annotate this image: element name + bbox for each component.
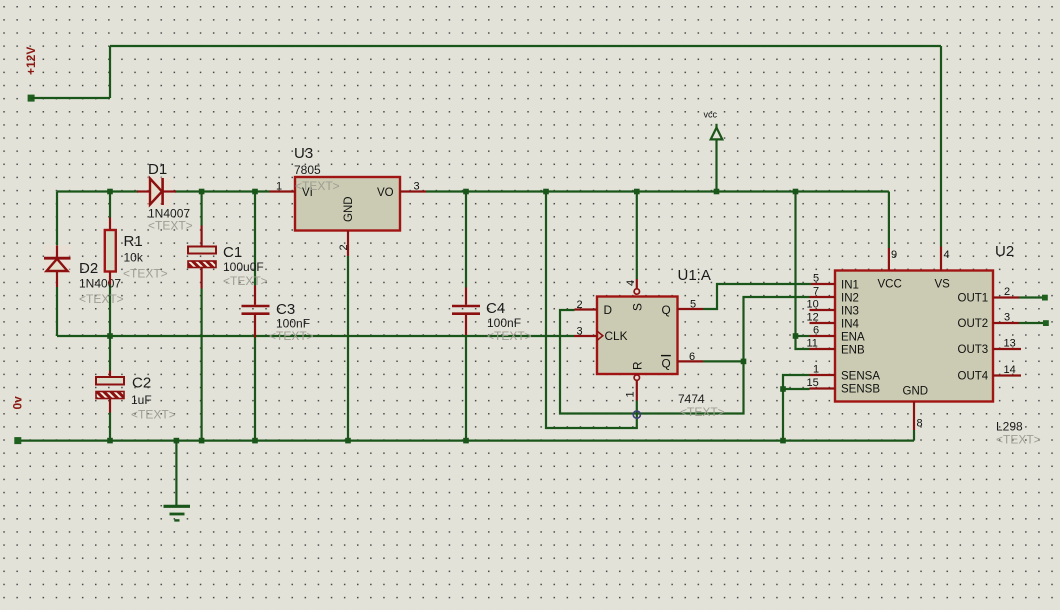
wire SENSA left	[783, 375, 810, 389]
label C1	[223, 244, 242, 261]
pin name OUT3	[958, 344, 989, 356]
pin 3 lead (U1 CLK)	[574, 335, 597, 337]
wire Qbar to junction	[703, 360, 744, 362]
label vcc	[704, 110, 718, 120]
svg-text:IN3: IN3	[841, 306, 859, 318]
svg-text:1: 1	[813, 364, 819, 376]
text placeholder (C1)	[223, 274, 268, 288]
pin 1 lead (U3 VI)	[270, 190, 296, 192]
junction rail-vcc arrow	[714, 189, 720, 195]
pin number 15 (U2)	[807, 377, 819, 389]
svg-text:100u0F: 100u0F	[223, 260, 264, 274]
svg-text:VS: VS	[935, 279, 951, 291]
capacitor C2 (polarized)	[96, 371, 124, 413]
svg-text:11: 11	[807, 338, 818, 350]
svg-text:3: 3	[414, 181, 420, 193]
wire ENA/ENB riser	[794, 192, 796, 337]
value 7474	[678, 392, 705, 406]
pin number 2 (U1)	[577, 299, 583, 311]
wire +12V drop to U2 VS	[940, 46, 942, 247]
wire U2 GND riser	[913, 430, 915, 441]
junction rail-pullup	[543, 189, 549, 195]
svg-text:4: 4	[944, 249, 950, 261]
pin name IN4	[841, 319, 860, 331]
svg-text:VO: VO	[377, 187, 394, 199]
pin 2 lead (U1 D)	[575, 308, 598, 310]
label R1	[124, 233, 143, 250]
clock input triangle	[597, 331, 603, 340]
pin 8 lead (U2 GND)	[913, 402, 915, 431]
value 1N4007 (D2)	[79, 277, 121, 291]
pin number 10 (U2)	[807, 299, 819, 311]
wire +12V top rail	[110, 45, 941, 47]
svg-text:1: 1	[276, 181, 282, 193]
label +12V	[24, 47, 38, 75]
svg-text:C3: C3	[276, 301, 295, 318]
pin name Q	[662, 303, 671, 317]
pin number 5 (U2)	[813, 273, 819, 285]
wire +12V riser	[109, 46, 111, 98]
pin number 3 (U3)	[414, 181, 420, 193]
pin 3 lead (OUT2)	[993, 322, 1019, 324]
wire C4 top	[465, 192, 467, 288]
pin name GND (U3)	[343, 196, 355, 222]
svg-text:<TEXT>: <TEXT>	[680, 405, 725, 419]
wire D2 branch down	[56, 192, 58, 246]
node OUT1 terminal	[1042, 295, 1048, 301]
junction rail-C1	[199, 189, 205, 195]
label C2	[132, 375, 151, 392]
svg-text:R: R	[631, 361, 645, 370]
label U2	[995, 243, 1014, 260]
pin number 8 (U2)	[917, 418, 923, 430]
pin name ENB	[841, 345, 865, 357]
value 100u0F	[223, 260, 264, 274]
pin name IN1	[841, 280, 859, 292]
junction gnd-C4	[463, 438, 469, 444]
svg-text:VCC: VCC	[878, 279, 902, 291]
label D1	[148, 161, 167, 178]
svg-text:IN2: IN2	[841, 293, 859, 305]
value 7805	[294, 163, 321, 177]
node crossing marker near U1 R pin	[633, 411, 640, 418]
label U3	[294, 145, 313, 162]
svg-text:5: 5	[690, 299, 696, 311]
pin 10 lead (IN3)	[810, 309, 836, 311]
pin 13 lead (OUT3)	[993, 348, 1021, 350]
junction CLK line-C2	[107, 333, 113, 339]
node 0v terminal	[14, 437, 21, 444]
svg-text:<TEXT>: <TEXT>	[148, 219, 193, 233]
pin 1 lead (SENSA)	[810, 374, 836, 376]
pin name VO	[377, 187, 394, 199]
pin 11 lead (ENB)	[810, 348, 836, 350]
wire C2 bottom to ground rail	[109, 413, 111, 441]
junction gnd-U3	[345, 438, 351, 444]
wire ENA to ENB	[796, 336, 810, 349]
svg-text:GND: GND	[343, 196, 355, 222]
svg-text:2: 2	[577, 299, 583, 311]
pin number 3 (U1)	[577, 326, 583, 338]
svg-text:6: 6	[813, 325, 819, 337]
wire rail D1 to U3 pin1	[175, 190, 270, 192]
pin 2 lead (U3 GND)	[347, 231, 349, 257]
wire U3 GND to ground rail	[347, 256, 349, 441]
svg-text:7805: 7805	[294, 163, 321, 177]
wire Q to IN1	[703, 284, 811, 309]
ground symbol	[164, 441, 191, 521]
junction rail-ENA riser	[793, 189, 799, 195]
label C4	[486, 300, 505, 317]
wire +12V terminal to riser	[31, 97, 110, 99]
pin number 6 (U1)	[689, 351, 695, 363]
wire ground rail	[18, 440, 914, 442]
svg-text:C2: C2	[132, 375, 151, 392]
svg-text:+12V: +12V	[24, 47, 38, 75]
pin 6 lead (ENA)	[810, 335, 836, 337]
text placeholder (U1)	[680, 405, 725, 419]
junction rail-C4	[463, 189, 469, 195]
svg-text:1: 1	[625, 391, 637, 397]
pin number 4 (U2)	[944, 249, 950, 261]
pin name ENA	[841, 332, 865, 344]
pin name R (rotated)	[631, 361, 645, 370]
junction SENSA-SENSB	[780, 386, 786, 392]
label 0v	[11, 396, 25, 410]
wire C4 bottom to ground rail	[465, 335, 467, 441]
pin 1 lead (U1 R) with inversion circle	[634, 375, 639, 401]
pin name D	[604, 303, 613, 317]
wire C3 top	[254, 192, 256, 286]
pin 4 lead (U1 S) with inversion circle	[634, 279, 639, 294]
value 1uF	[131, 393, 152, 407]
svg-text:OUT2: OUT2	[958, 318, 989, 330]
label C3	[276, 301, 295, 318]
text placeholder (D2)	[79, 292, 124, 306]
svg-text:Q: Q	[662, 303, 671, 317]
svg-text:OUT3: OUT3	[958, 344, 989, 356]
svg-text:7474: 7474	[678, 392, 705, 406]
junction gnd-SENS	[780, 438, 786, 444]
wire VO output rail	[426, 190, 889, 192]
pin 5 lead (IN1)	[811, 283, 835, 285]
svg-text:4: 4	[625, 280, 637, 286]
svg-text:OUT4: OUT4	[958, 371, 989, 383]
svg-text:vcc: vcc	[704, 110, 718, 120]
junction rail-R1	[107, 189, 113, 195]
svg-text:L298: L298	[996, 420, 1023, 434]
svg-text:Q: Q	[662, 357, 671, 371]
svg-text:IN4: IN4	[841, 319, 860, 331]
svg-text:3: 3	[577, 326, 583, 338]
text placeholder (R1)	[123, 267, 168, 281]
wire ENA stub	[796, 335, 810, 337]
pin name SENSA	[841, 371, 880, 383]
svg-text:2: 2	[1004, 286, 1010, 298]
label U1:A	[678, 267, 711, 284]
wire OUT2	[1019, 322, 1045, 324]
svg-text:ENB: ENB	[841, 345, 865, 357]
pin number 9 (U2)	[891, 249, 897, 261]
svg-text:CLK: CLK	[605, 329, 628, 343]
pin name GND (U2)	[903, 386, 929, 398]
pin number 1 (U1)	[625, 391, 637, 397]
wire OUT1	[1019, 296, 1044, 298]
junction ENA-ENB	[793, 333, 799, 339]
wire C3 bottom to ground rail	[254, 338, 256, 441]
svg-text:15: 15	[807, 377, 819, 389]
wire Qbar feedback to D	[560, 310, 744, 414]
svg-text:5: 5	[813, 273, 819, 285]
svg-text:13: 13	[1004, 338, 1016, 350]
svg-text:<TEXT>: <TEXT>	[487, 329, 532, 343]
pin 6 lead (U1 Qbar)	[678, 360, 704, 362]
value 1N4007 (D1)	[148, 207, 190, 221]
pin name Qbar with overline	[661, 356, 671, 371]
svg-text:SENSA: SENSA	[841, 371, 880, 383]
pin name OUT1	[958, 293, 989, 305]
pin number 2 (U3)	[338, 244, 350, 250]
svg-text:2: 2	[338, 244, 350, 250]
value L298	[996, 420, 1023, 434]
svg-text:GND: GND	[903, 386, 929, 398]
svg-text:U1:A: U1:A	[678, 267, 711, 284]
svg-text:0v: 0v	[11, 396, 25, 410]
text placeholder (C3)	[269, 329, 314, 343]
driver U2 L298	[835, 271, 993, 402]
wire R pull branch from rail	[546, 192, 637, 429]
pin number 13 (U2)	[1004, 338, 1016, 350]
svg-text:<TEXT>: <TEXT>	[131, 408, 176, 422]
wire U1 S pin riser	[636, 192, 638, 280]
junction gnd-C2	[107, 438, 113, 444]
pin 14 lead (OUT4)	[993, 374, 1021, 376]
wire C2 top stub	[109, 336, 111, 371]
junction gnd-C1	[199, 438, 205, 444]
wire C1 top	[201, 192, 203, 226]
svg-text:IN1: IN1	[841, 280, 859, 292]
pin number 4 (U1)	[625, 280, 637, 286]
svg-text:<TEXT>: <TEXT>	[79, 292, 124, 306]
wire CLK line	[57, 335, 574, 337]
power symbol VCC arrow	[711, 124, 723, 140]
pin name IN2	[841, 293, 859, 305]
pin name IN3	[841, 306, 859, 318]
node +12V terminal	[28, 95, 35, 102]
svg-text:ENA: ENA	[841, 332, 865, 344]
svg-text:U2: U2	[995, 243, 1014, 260]
pin name OUT4	[958, 371, 989, 383]
pin number 14 (U2)	[1004, 364, 1016, 376]
capacitor C1 (polarized)	[188, 226, 216, 289]
flip-flop U1:A 7474	[597, 297, 678, 375]
svg-text:8: 8	[917, 418, 923, 430]
wire R1 top stub	[109, 192, 111, 218]
svg-text:<TEXT>: <TEXT>	[295, 179, 340, 193]
pin number 1 (U3)	[276, 181, 282, 193]
svg-text:12: 12	[807, 312, 819, 324]
pin 7 lead (IN2)	[810, 296, 836, 298]
svg-text:C4: C4	[486, 300, 505, 317]
pin number 6 (U2)	[813, 325, 819, 337]
svg-text:D: D	[604, 303, 613, 317]
pin number 3 (U2)	[1004, 312, 1010, 324]
pin 15 lead (SENSB)	[810, 387, 836, 389]
svg-text:10k: 10k	[124, 251, 144, 265]
svg-text:9: 9	[891, 249, 897, 261]
svg-text:3: 3	[1004, 312, 1010, 324]
svg-text:10: 10	[807, 299, 819, 311]
junction Qbar node	[741, 359, 747, 365]
svg-text:100nF: 100nF	[487, 316, 521, 330]
wire U2 VCC drop	[888, 192, 890, 249]
capacitor C3	[242, 286, 270, 338]
pin number 7 (U2)	[813, 286, 819, 298]
pin name OUT2	[958, 318, 989, 330]
pin 9 lead (U2 VCC)	[888, 248, 890, 271]
text placeholder (U2)	[996, 433, 1041, 447]
capacitor C4	[452, 288, 480, 336]
pin name SENSB	[841, 384, 880, 396]
svg-text:<TEXT>: <TEXT>	[996, 433, 1041, 447]
svg-text:1N4007: 1N4007	[79, 277, 121, 291]
value 100nF (C4)	[487, 316, 521, 330]
pin name S (rotated)	[631, 303, 645, 311]
value 10k	[124, 251, 144, 265]
pin name VS (U2)	[935, 279, 951, 291]
text placeholder (U3)	[295, 179, 340, 193]
regulator U3 7805	[295, 177, 400, 231]
text placeholder (C2)	[131, 408, 176, 422]
pin 5 lead (U1 Q)	[678, 308, 704, 310]
junction rail-C3	[252, 189, 258, 195]
svg-text:D2: D2	[79, 260, 98, 277]
text placeholder (C4)	[487, 329, 532, 343]
svg-text:7: 7	[813, 286, 819, 298]
pin 2 lead (OUT1)	[993, 296, 1019, 298]
svg-text:OUT1: OUT1	[958, 293, 989, 305]
pin 4 lead (U2 VS)	[940, 247, 942, 271]
pin number 11 (U2)	[807, 338, 818, 350]
value 100nF (C3)	[276, 317, 310, 331]
pin 12 lead (IN4)	[810, 322, 836, 324]
diode D1	[137, 177, 176, 207]
junction gnd-C3	[252, 438, 258, 444]
resistor R1	[105, 218, 116, 285]
wire R1 bottom to CLK line	[109, 285, 111, 337]
junction rail-S	[634, 189, 640, 195]
wire SENSB left	[783, 388, 810, 390]
svg-text:1uF: 1uF	[131, 393, 152, 407]
pin 3 lead (U3 VO)	[400, 190, 426, 192]
svg-text:C1: C1	[223, 244, 242, 261]
wire SENS to ground rail	[782, 389, 784, 441]
wire Qbar junction to IN2	[744, 297, 810, 361]
svg-text:<TEXT>: <TEXT>	[269, 329, 314, 343]
pin number 2 (U2)	[1004, 286, 1010, 298]
pin number 5 (U1)	[690, 299, 696, 311]
label D2	[79, 260, 98, 277]
svg-text:R1: R1	[124, 233, 143, 250]
pin name CLK	[605, 329, 628, 343]
pin name VI	[302, 187, 313, 199]
wire main input rail (left of D1)	[57, 190, 138, 192]
pin number 12 (U2)	[807, 312, 819, 324]
pin number 1 (U2)	[813, 364, 819, 376]
svg-text:SENSB: SENSB	[841, 384, 880, 396]
svg-text:U3: U3	[294, 145, 313, 162]
wire C1 bottom to ground rail	[201, 289, 203, 441]
svg-text:D1: D1	[148, 161, 167, 178]
svg-text:<TEXT>: <TEXT>	[223, 274, 268, 288]
svg-text:S: S	[631, 303, 645, 311]
svg-text:14: 14	[1004, 364, 1016, 376]
wire D2 bottom to CLK line	[56, 287, 58, 336]
text placeholder (D1)	[148, 219, 193, 233]
wire VCC arrow stem	[715, 140, 717, 192]
junction gnd-symbol	[174, 438, 180, 444]
diode D2	[44, 245, 71, 287]
pin name VCC (U2)	[878, 279, 902, 291]
svg-text:<TEXT>: <TEXT>	[123, 267, 168, 281]
svg-text:6: 6	[689, 351, 695, 363]
node OUT2 terminal	[1043, 320, 1049, 326]
